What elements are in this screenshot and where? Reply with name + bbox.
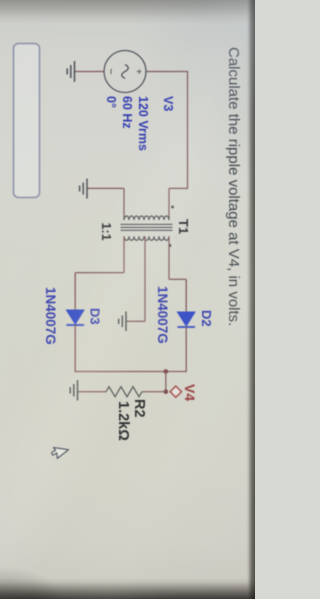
svg-text:T1: T1 <box>176 219 191 234</box>
wire from primary bottom down to ground <box>87 187 124 189</box>
svg-text:+: + <box>133 69 144 75</box>
svg-text:Calculate the ripple voltage a: Calculate the ripple voltage at V4, in v… <box>225 47 242 326</box>
svg-text:1N4007G: 1N4007G <box>43 287 58 345</box>
svg-text:0°: 0° <box>104 96 118 108</box>
svg-text:1:1: 1:1 <box>99 223 113 241</box>
svg-text:D3: D3 <box>88 308 103 325</box>
ground at center tap <box>119 312 126 332</box>
answer input box <box>14 44 40 198</box>
secondary polarity dot <box>169 244 172 247</box>
diode D3 <box>66 310 84 325</box>
V3 labels <box>104 96 175 151</box>
AC source V3 <box>104 51 146 93</box>
wire D3 cathode to bus <box>74 325 76 373</box>
svg-text:1N4007G: 1N4007G <box>155 286 170 344</box>
wire D2 anode row <box>185 279 187 313</box>
wire D2 cathode to bus <box>185 327 187 373</box>
wire jog down to D3 row <box>75 272 124 274</box>
svg-text:−: − <box>105 68 117 74</box>
right bus wire D2 row to D3 row <box>75 371 186 373</box>
wire secondary bottom pin <box>123 236 125 272</box>
mouse cursor <box>52 448 69 459</box>
wire D3 anode row <box>74 273 76 311</box>
primary polarity dot <box>171 206 174 209</box>
ground under R2 <box>70 380 77 401</box>
svg-text:60 Hz: 60 Hz <box>120 96 134 129</box>
svg-text:1.2kΩ: 1.2kΩ <box>115 401 131 441</box>
wire R2 bottom to ground <box>78 391 107 393</box>
wire top horizontal run to transformer column <box>187 71 189 189</box>
junction dot on bus <box>164 369 169 374</box>
primary coil <box>124 216 169 220</box>
wire jog up to D2 row <box>169 278 186 280</box>
ground under V3 <box>67 61 74 82</box>
core lines <box>121 223 173 225</box>
wire to transformer primary top pin <box>168 188 170 220</box>
wire from V3 bottom pin down to ground <box>75 71 105 73</box>
secondary coil <box>124 236 169 240</box>
svg-text:D2: D2 <box>199 310 214 327</box>
node V4 probe diamond <box>170 386 181 397</box>
transformer T1 <box>121 206 174 247</box>
center tap drop to ground <box>126 320 145 322</box>
wire transformer primary bottom pin <box>123 188 125 220</box>
svg-text:120 Vrms: 120 Vrms <box>136 96 150 151</box>
svg-text:V4: V4 <box>182 384 198 401</box>
wire R2 top <box>142 391 166 393</box>
wire bus to R2 branch <box>165 372 167 392</box>
wire from V3 top pin up <box>146 71 188 73</box>
svg-text:R2: R2 <box>131 399 147 418</box>
junction dot at R2 top <box>164 389 169 394</box>
resistor R2 zigzag <box>106 387 142 397</box>
svg-text:V3: V3 <box>161 96 175 111</box>
transformer center tap wire <box>144 236 146 321</box>
diode D2 <box>177 312 195 327</box>
wire jog down to primary top level <box>169 187 188 189</box>
wire secondary top pin <box>168 236 170 279</box>
photo edge darkening overlays (display orientation) <box>0 0 255 24</box>
ground under primary bottom <box>80 179 87 199</box>
